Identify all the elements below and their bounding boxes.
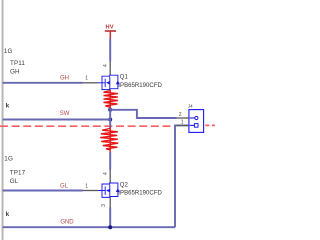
wire HV to Q1 drain [109,39,111,62]
wire GND rail [3,226,175,228]
wire resistor to Q2 drain [109,152,111,170]
transistor Q1 (MOSFET symbol) [98,75,120,89]
Q2 pin 4 (drain pin) [103,170,110,184]
wire Q2 source to GND rail [109,208,111,228]
svg-text:IPB65R190CFD: IPB65R190CFD [118,191,162,197]
svg-text:k: k [6,103,10,110]
svg-text:GL: GL [10,178,19,185]
svg-text:Q2: Q2 [120,182,129,188]
Q1 gate pin 1 [83,76,99,83]
svg-text:1: 1 [85,76,88,82]
Q2 pin 3 (source pin) [101,197,110,207]
wire SW node down [109,108,111,128]
wire GH net [3,82,83,84]
svg-text:k: k [6,211,10,218]
svg-text:TP17: TP17 [10,169,26,176]
svg-text:4: 4 [103,172,109,175]
node: junction to J4 pin 2 [108,108,112,112]
svg-text:GH: GH [60,76,69,82]
svg-text:2: 2 [179,112,182,118]
J4 pin 1 [177,124,190,126]
node: GND junction [108,225,112,229]
svg-text:J4: J4 [188,103,193,108]
svg-text:1: 1 [85,184,88,190]
svg-text:4: 4 [103,64,109,67]
svg-text:TP11: TP11 [10,60,25,67]
wire SW net [3,119,111,121]
svg-text:Q1: Q1 [120,75,129,81]
Q1 pin 4 (drain pin) [103,62,110,76]
resistor (red) between Q1 source and SW node [104,90,118,109]
svg-text:GND: GND [60,219,74,225]
svg-text:HV: HV [106,25,114,31]
svg-text:1G: 1G [4,156,13,163]
power symbol HV [105,25,116,39]
svg-text:3: 3 [101,204,107,207]
J4 pin 2 [177,117,190,119]
svg-text:GH: GH [10,69,20,76]
Q2 gate pin 1 [83,184,99,191]
svg-text:1: 1 [181,120,184,126]
wire GL net [3,190,83,192]
wire J4 pin1 to GND rail [175,125,189,227]
svg-text:1G: 1G [4,48,13,55]
wire SW node to J4 pin 2 (upper segment) [110,110,176,118]
net highlight SW (red dashed line) [0,124,215,127]
node SW [108,118,112,122]
svg-text:SW: SW [60,111,70,117]
svg-text:IPB65R190CFD: IPB65R190CFD [118,83,162,89]
transistor Q2 (MOSFET symbol) [98,183,120,197]
resistor (red) between SW node and Q2 drain [100,128,118,153]
svg-text:GL: GL [60,184,69,190]
connector J4 [177,103,204,132]
